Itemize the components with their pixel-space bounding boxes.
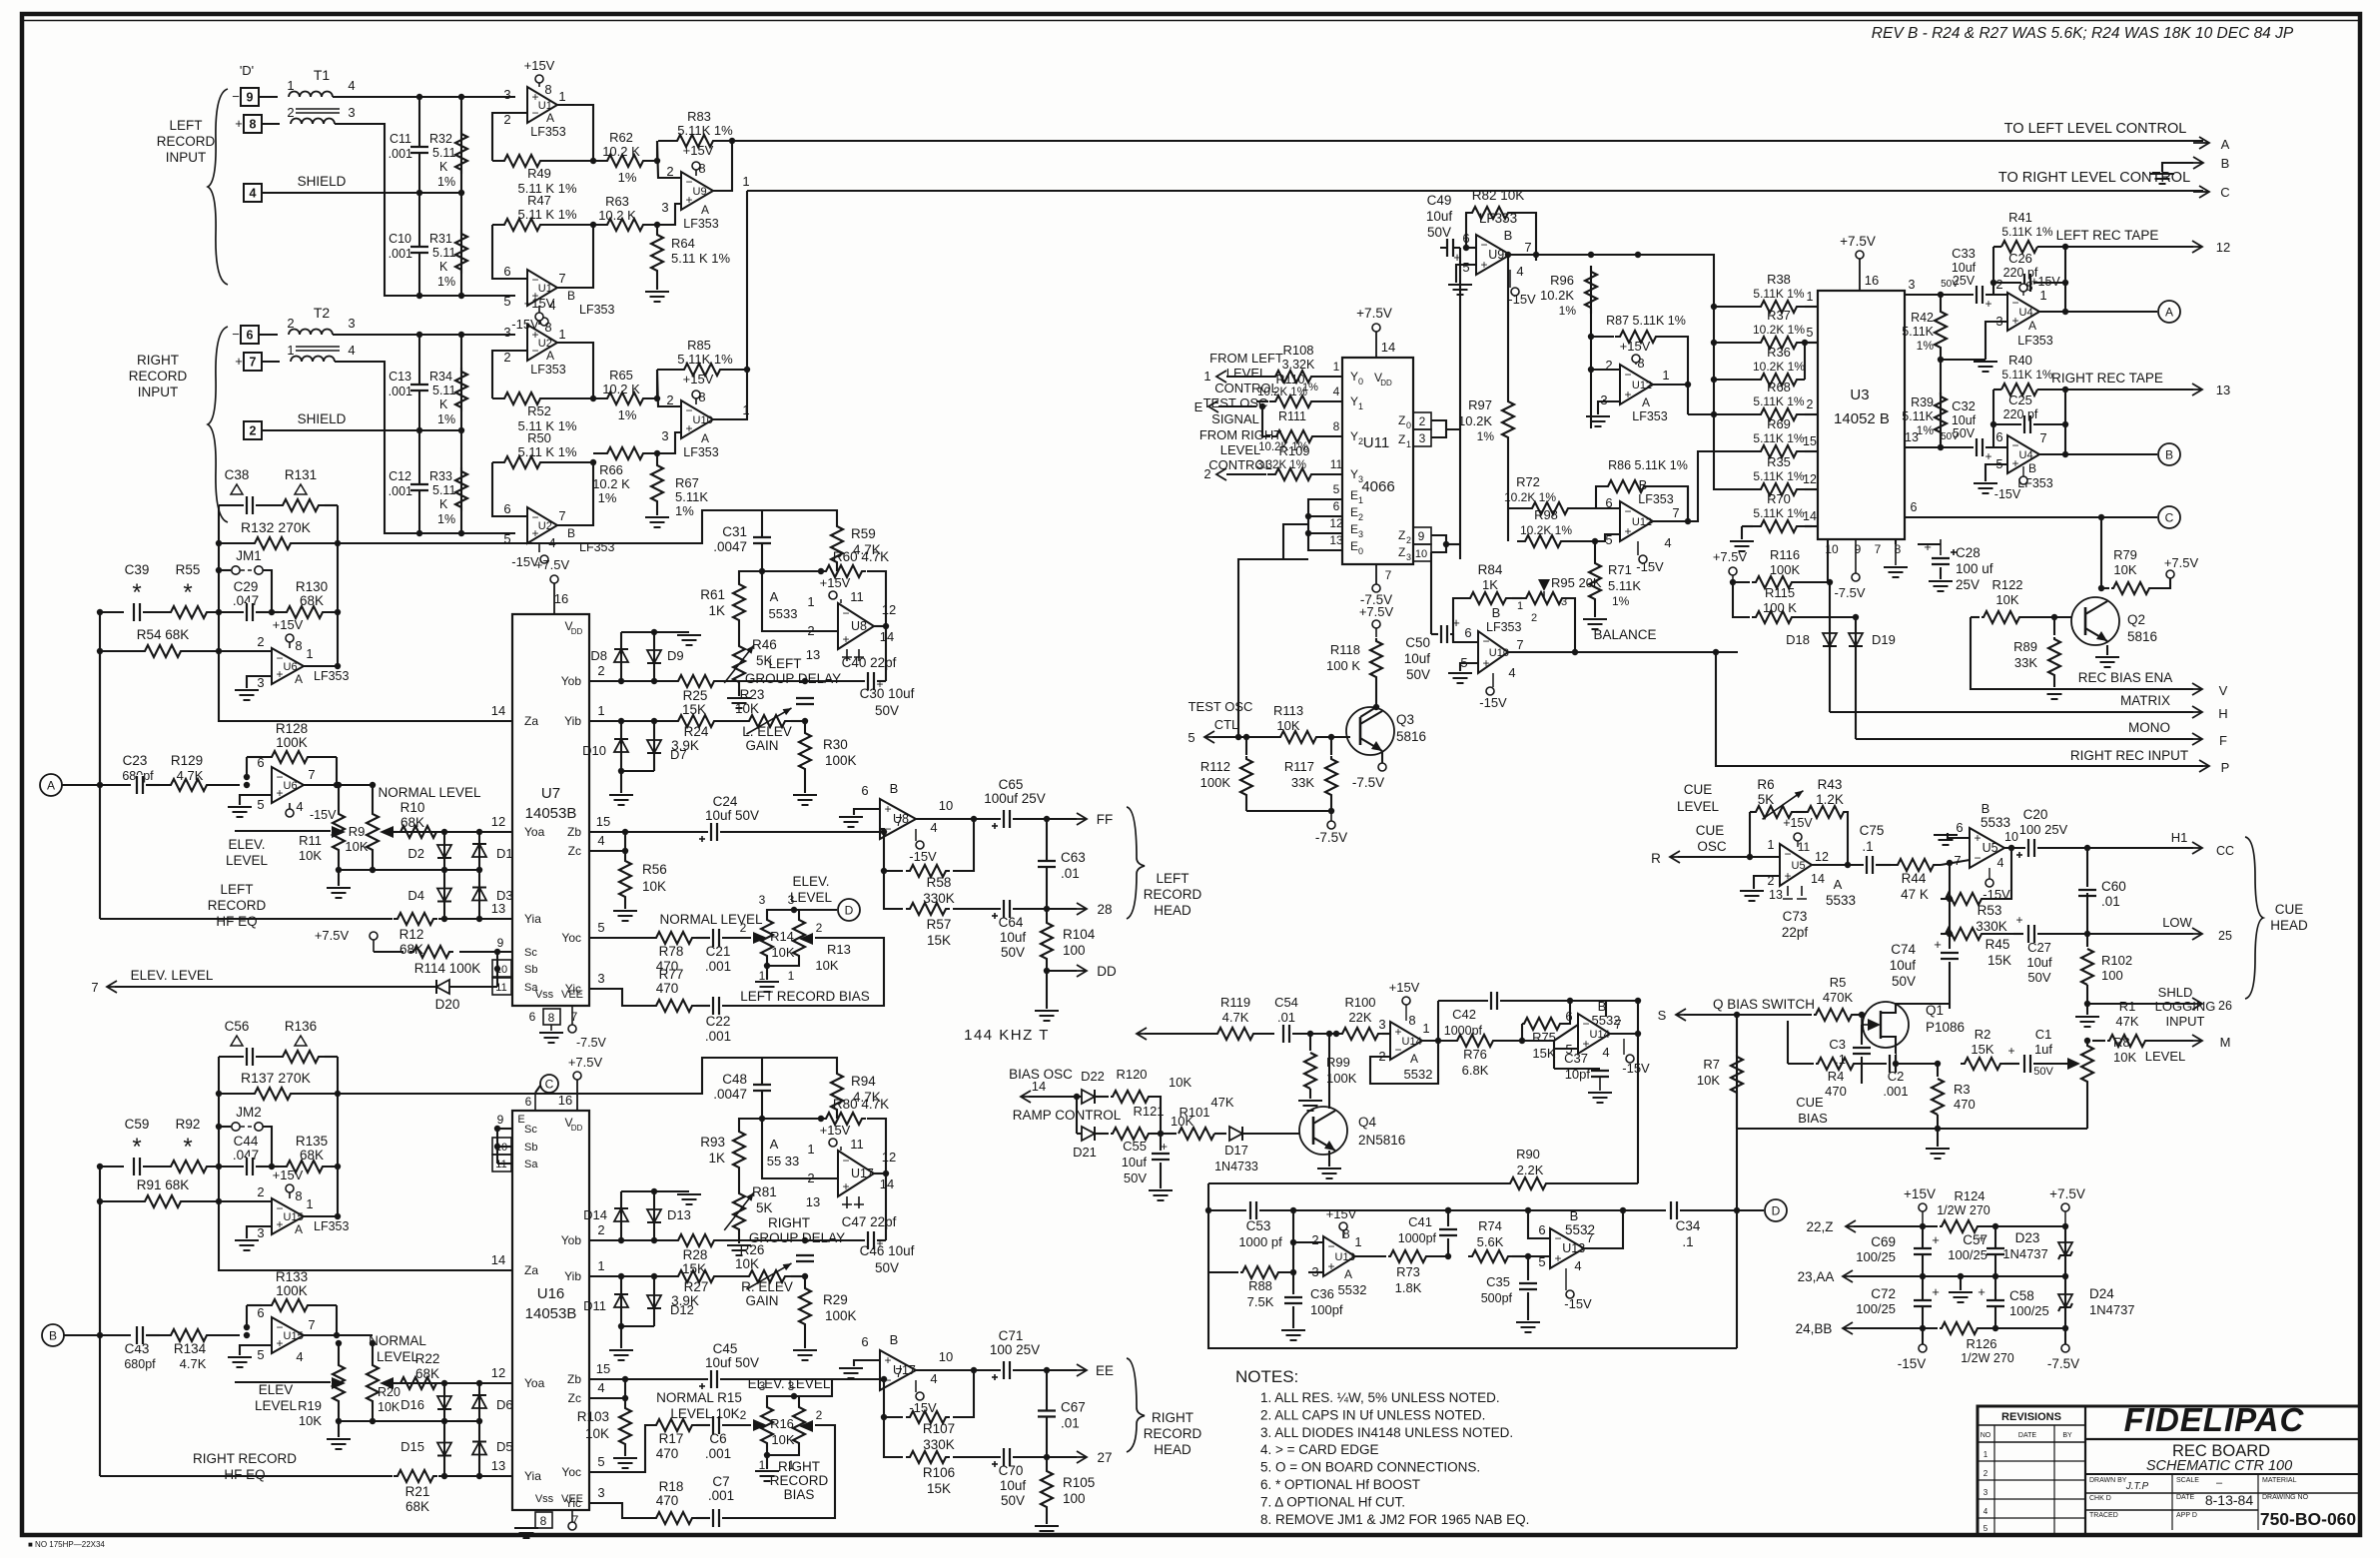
svg-text:+7.5V: +7.5V [535, 557, 570, 572]
card edge arrow B with ground [2162, 163, 2193, 172]
trimmer R95 20K [1512, 597, 1522, 599]
record head brace [1127, 807, 1145, 919]
wire Za pin 14 [219, 651, 512, 721]
svg-text:DD: DD [571, 1124, 583, 1133]
svg-text:Yia: Yia [524, 1469, 541, 1483]
svg-text:U4: U4 [2019, 307, 2033, 319]
svg-text:LEVEL: LEVEL [377, 1349, 419, 1364]
wire [418, 335, 420, 533]
svg-text:C39: C39 [125, 562, 150, 577]
svg-text:5.11K 1%: 5.11K 1% [677, 123, 733, 138]
svg-text:INPUT: INPUT [166, 150, 207, 165]
svg-text:+: + [1924, 539, 1932, 554]
svg-text:9: 9 [497, 936, 504, 950]
svg-text:7: 7 [558, 508, 565, 523]
wire [1238, 559, 1308, 737]
svg-text:10uf: 10uf [1000, 930, 1027, 945]
wire U10 output [713, 191, 747, 419]
svg-text:1: 1 [1807, 290, 1814, 304]
svg-text:5: 5 [1807, 326, 1814, 340]
svg-text:Za: Za [524, 714, 538, 728]
svg-text:U3: U3 [1850, 387, 1869, 403]
svg-text:D16: D16 [400, 1397, 424, 1412]
ground [240, 795, 272, 805]
svg-text:R4: R4 [1828, 1069, 1845, 1084]
svg-text:10: 10 [939, 798, 953, 813]
svg-text:1: 1 [1358, 495, 1363, 505]
svg-text:7: 7 [1875, 542, 1882, 556]
trimmer R19 10K [333, 1357, 345, 1409]
svg-text:14: 14 [1032, 1079, 1046, 1094]
svg-text:10uf: 10uf [2026, 955, 2052, 970]
svg-text:+: + [276, 667, 283, 681]
wire R132 row to C31 node [338, 510, 762, 543]
IC U16 14053B [512, 1111, 589, 1510]
svg-text:C64: C64 [999, 915, 1024, 930]
svg-text:50V: 50V [2033, 1066, 2053, 1078]
svg-text:100K: 100K [1770, 562, 1801, 577]
svg-text:33K: 33K [2014, 655, 2037, 670]
svg-text:5: 5 [1605, 532, 1612, 547]
svg-text:R11: R11 [299, 833, 322, 848]
svg-text:K: K [439, 260, 448, 274]
svg-text:LF353: LF353 [314, 669, 349, 683]
svg-text:2: 2 [1419, 414, 1426, 428]
wire U8 output [874, 625, 886, 627]
svg-text:1: 1 [1354, 1234, 1361, 1249]
wire U4 A output [2039, 311, 2157, 313]
svg-text:330K: 330K [1976, 919, 2007, 934]
svg-text:Vss: Vss [535, 1493, 554, 1505]
svg-text:R46: R46 [752, 637, 777, 652]
capacitor C37 10pf [1553, 1049, 1555, 1069]
svg-text:R78: R78 [659, 944, 684, 959]
wire [621, 631, 689, 633]
svg-text:3: 3 [348, 316, 355, 331]
IC U7 14053B [512, 614, 589, 1006]
svg-text:8: 8 [295, 638, 302, 653]
svg-text:A: A [546, 111, 554, 125]
wire [1678, 856, 1780, 858]
svg-text:C45: C45 [713, 1341, 738, 1356]
connector pin 8 [244, 115, 262, 133]
svg-text:C44: C44 [234, 1134, 259, 1149]
svg-text:R47: R47 [527, 193, 551, 208]
trimmer R15 10K [799, 1420, 813, 1432]
svg-text:3: 3 [1378, 1017, 1385, 1032]
svg-text:3: 3 [597, 971, 604, 986]
svg-text:.001: .001 [389, 484, 412, 498]
ground Q2 emitter [2106, 645, 2108, 655]
svg-text:12: 12 [882, 602, 896, 617]
svg-text:C54: C54 [1274, 995, 1298, 1010]
svg-text:8: 8 [544, 320, 551, 335]
svg-text:Zc: Zc [568, 1391, 581, 1405]
svg-text:C55: C55 [1123, 1139, 1147, 1154]
U11 enable wires [1308, 499, 1342, 550]
svg-text:−: − [276, 1320, 283, 1334]
wire vertical bus [1736, 1015, 1738, 1348]
svg-text:RIGHT REC TAPE: RIGHT REC TAPE [2051, 371, 2163, 386]
svg-text:5. O = ON BOARD CONNECTIONS.: 5. O = ON BOARD CONNECTIONS. [1260, 1460, 1480, 1475]
ground [677, 634, 701, 636]
svg-text:2: 2 [816, 1408, 823, 1422]
svg-text:LEVEL: LEVEL [255, 1398, 298, 1413]
svg-text:-15V: -15V [1479, 695, 1507, 710]
op-amp U5 A 5533 [1780, 844, 1812, 886]
wire loop [1208, 1183, 1737, 1348]
svg-text:26: 26 [2218, 999, 2232, 1013]
svg-text:R5: R5 [1830, 975, 1847, 990]
wire [418, 97, 420, 296]
svg-text:100/25: 100/25 [2009, 1303, 2049, 1318]
svg-text:50V: 50V [1001, 1493, 1025, 1508]
svg-text:−: − [276, 651, 283, 665]
svg-text:1: 1 [759, 969, 766, 983]
svg-text:*: * [183, 1134, 192, 1161]
svg-text:10: 10 [1415, 548, 1427, 560]
svg-text:100uf 25V: 100uf 25V [984, 791, 1046, 806]
svg-text:1: 1 [306, 1196, 313, 1211]
svg-text:6: 6 [1995, 429, 2002, 444]
svg-text:REVISIONS: REVISIONS [2001, 1411, 2061, 1423]
svg-text:16: 16 [1865, 273, 1879, 288]
wire Zc join [589, 850, 625, 852]
svg-text:100 25V: 100 25V [2019, 822, 2068, 837]
svg-text:C36: C36 [1310, 1286, 1334, 1301]
connector C circle to U16 E pin [540, 1075, 558, 1093]
svg-text:4: 4 [1602, 1045, 1609, 1060]
svg-text:D10: D10 [582, 743, 606, 758]
svg-text:100: 100 [1063, 1491, 1086, 1506]
wire [621, 1325, 654, 1327]
diode D9 [653, 632, 655, 681]
svg-text:100/25: 100/25 [1948, 1247, 1987, 1262]
capacitor C63 .01 [1046, 819, 1048, 909]
svg-text:10uf: 10uf [1952, 413, 1977, 427]
resistor R3 470 [1937, 1064, 1939, 1077]
svg-text:2: 2 [503, 112, 510, 127]
diode D14 [620, 1191, 622, 1240]
svg-text:+: + [1624, 388, 1631, 401]
svg-text:DD: DD [1097, 964, 1117, 979]
svg-text:4: 4 [250, 187, 257, 201]
svg-text:RECORD: RECORD [208, 898, 267, 913]
svg-text:7: 7 [1516, 637, 1523, 652]
wire R35 row [1713, 488, 1715, 490]
svg-text:Z: Z [1398, 432, 1405, 446]
op-amp U1 B [527, 270, 557, 306]
IC U3 14052B [1818, 291, 1905, 539]
svg-text:3: 3 [1983, 1488, 1988, 1497]
svg-text:12: 12 [491, 814, 505, 829]
ground [1149, 1189, 1173, 1191]
svg-text:B: B [2165, 448, 2173, 462]
svg-text:Sc: Sc [524, 947, 537, 959]
svg-text:T2: T2 [314, 305, 331, 321]
resistor R39 5.11K 1% [1940, 392, 1942, 447]
svg-text:D: D [845, 904, 854, 918]
resistor R59 4.7K [762, 510, 837, 524]
svg-text:+: + [1932, 1284, 1940, 1299]
svg-text:1K: 1K [708, 1151, 725, 1166]
svg-text:10K: 10K [815, 958, 838, 973]
svg-text:6. * OPTIONAL Hf BOOST: 6. * OPTIONAL Hf BOOST [1260, 1477, 1420, 1492]
svg-text:1%: 1% [1612, 594, 1630, 608]
wire [247, 676, 272, 688]
resistor R50 feedback [492, 462, 527, 516]
svg-text:+: + [1453, 250, 1461, 265]
resistor R86 5.11K [1596, 486, 1620, 508]
wire LOW [2086, 893, 2088, 934]
svg-text:100K: 100K [825, 753, 857, 768]
svg-text:DD: DD [1380, 379, 1392, 388]
svg-text:1: 1 [558, 327, 565, 342]
svg-text:13: 13 [491, 901, 505, 916]
svg-text:5K: 5K [1758, 792, 1775, 807]
svg-text:SIGNAL: SIGNAL [1211, 411, 1259, 426]
svg-text:R53: R53 [1978, 903, 2002, 918]
ground [1985, 322, 2007, 360]
resistor R28 15K [589, 1239, 674, 1241]
resistor R122 10K [1971, 616, 1980, 618]
svg-text:C71: C71 [999, 1328, 1024, 1343]
-15V supply U12B [1639, 555, 1647, 563]
svg-text:470: 470 [656, 1493, 679, 1508]
svg-text:A: A [2165, 306, 2173, 320]
resistor R70 5.11K 1% [1753, 520, 1805, 532]
svg-text:25V: 25V [1956, 577, 1980, 592]
svg-text:7: 7 [2039, 430, 2046, 445]
connector pin 7 [244, 353, 262, 371]
svg-text:10K: 10K [771, 945, 794, 960]
svg-text:13: 13 [806, 1194, 820, 1209]
svg-text:6: 6 [1538, 1222, 1545, 1237]
resistor R75 15K [1522, 1018, 1562, 1030]
svg-text:LOGGING: LOGGING [2155, 999, 2216, 1014]
svg-text:10K: 10K [1169, 1075, 1191, 1090]
svg-text:R77: R77 [659, 967, 684, 982]
card edge 22,Z [1846, 1225, 1862, 1227]
svg-text:LF353: LF353 [1479, 211, 1517, 226]
svg-text:BY: BY [2062, 1432, 2072, 1439]
resistor R119 4.7K [1213, 1028, 1257, 1040]
svg-text:470: 470 [1825, 1084, 1847, 1099]
svg-text:10uf 50V: 10uf 50V [705, 808, 759, 823]
svg-text:2: 2 [287, 316, 294, 331]
svg-text:13: 13 [1769, 888, 1783, 902]
svg-text:5: 5 [1188, 730, 1194, 745]
svg-text:RIGHT RECORD: RIGHT RECORD [193, 1451, 297, 1466]
resistor R38 5.11K 1% [1753, 301, 1805, 313]
diode D19 [1855, 617, 1857, 739]
svg-text:100K: 100K [825, 1308, 857, 1323]
card edge 24,BB [1843, 1327, 1859, 1329]
svg-text:12: 12 [1815, 850, 1829, 864]
resistor R29 100K [804, 1276, 806, 1286]
cue head brace [2245, 837, 2263, 999]
svg-text:1: 1 [1333, 360, 1340, 374]
resistor R89 33K [2053, 617, 2055, 635]
svg-text:U12: U12 [1632, 516, 1652, 528]
svg-text:100/25: 100/25 [1856, 1301, 1896, 1316]
ground [645, 516, 669, 518]
svg-text:330K: 330K [923, 1437, 955, 1452]
connector pin 2 [244, 421, 262, 439]
svg-text:10K: 10K [1995, 592, 2018, 607]
svg-text:13: 13 [1329, 533, 1343, 547]
svg-text:6: 6 [1565, 1009, 1572, 1024]
svg-text:6: 6 [257, 1305, 264, 1320]
capacitor C47 22pf [885, 1173, 887, 1240]
svg-text:4: 4 [1997, 856, 2004, 870]
capacitor C13 [409, 385, 429, 390]
wire U15 B output [304, 1334, 373, 1336]
op-amp U10 A [681, 400, 713, 438]
resistor R72 10.2K [1508, 507, 1526, 509]
svg-text:14053B: 14053B [525, 805, 577, 822]
trimmer R20 10K [367, 1357, 379, 1409]
wire bus from U9B output [1638, 255, 1753, 489]
svg-text:5533: 5533 [769, 606, 798, 621]
connector A circle [40, 774, 62, 796]
svg-text:FIDELIPAC: FIDELIPAC [2124, 1401, 2305, 1438]
svg-text:R12: R12 [399, 927, 424, 942]
diode D22 [1077, 1096, 1082, 1098]
svg-text:5.11 K 1%: 5.11 K 1% [671, 251, 730, 266]
diode D7 [653, 721, 655, 771]
svg-text:-7.5V: -7.5V [576, 1036, 607, 1050]
svg-text:BIAS: BIAS [784, 1487, 815, 1502]
svg-text:R43: R43 [1818, 777, 1843, 792]
svg-text:4: 4 [348, 78, 355, 93]
svg-text:Q4: Q4 [1358, 1115, 1377, 1130]
svg-text:1%: 1% [437, 175, 455, 189]
resistor R47 feedback [492, 225, 527, 279]
resistor R110 10.2K [1256, 400, 1268, 402]
svg-text:LEFT REC TAPE: LEFT REC TAPE [2056, 228, 2159, 243]
-15V supply [1626, 1055, 1634, 1063]
svg-text:C42: C42 [1452, 1007, 1476, 1022]
ground [235, 689, 259, 691]
svg-text:1: 1 [1406, 439, 1411, 449]
svg-text:R52: R52 [527, 403, 551, 418]
svg-text:C50: C50 [1405, 635, 1430, 650]
svg-text:R57: R57 [927, 917, 952, 932]
svg-text:-15V: -15V [1508, 292, 1536, 307]
svg-text:SHLD: SHLD [2158, 985, 2193, 1000]
svg-text:R44: R44 [1902, 871, 1927, 886]
svg-text:R: R [1651, 851, 1661, 866]
wire [259, 334, 278, 336]
svg-text:R75: R75 [1532, 1030, 1556, 1045]
svg-text:5.11 K 1%: 5.11 K 1% [517, 207, 576, 222]
svg-text:24,BB: 24,BB [1796, 1321, 1833, 1336]
svg-text:10K: 10K [345, 839, 368, 854]
svg-text:R96: R96 [1550, 273, 1574, 288]
svg-text:C27: C27 [2027, 940, 2051, 955]
svg-text:10K: 10K [299, 848, 322, 863]
wire cue bias rail [1737, 1128, 2087, 1130]
svg-text:1: 1 [1517, 600, 1523, 612]
svg-text:1N4737: 1N4737 [2002, 1246, 2048, 1261]
svg-text:1: 1 [287, 343, 294, 358]
svg-text:50V: 50V [875, 1260, 899, 1275]
resistor R40 5.11K 1% [1993, 389, 2001, 390]
wire Zc join [589, 1397, 625, 1399]
svg-text:R3: R3 [1954, 1082, 1971, 1097]
svg-text:JM2: JM2 [236, 1105, 262, 1120]
svg-text:C25: C25 [2008, 392, 2032, 407]
capacitor C65 [974, 818, 1001, 820]
svg-text:Yob: Yob [561, 1233, 582, 1247]
svg-text:5.11K: 5.11K [675, 489, 708, 504]
svg-text:U10: U10 [1489, 647, 1509, 659]
svg-text:V: V [2219, 683, 2228, 698]
connector B circle [42, 1324, 64, 1346]
capacitor C74 10uf 50V [1949, 934, 1951, 949]
svg-text:+7.5V: +7.5V [315, 928, 350, 943]
svg-text:5.11K 1%: 5.11K 1% [1753, 469, 1804, 483]
svg-text:2: 2 [250, 424, 257, 438]
-7.5V supply Q3 emitter [1381, 751, 1383, 763]
svg-text:-15V: -15V [310, 808, 337, 822]
svg-text:D18: D18 [1786, 632, 1810, 647]
resistor R100 22K [1338, 1028, 1382, 1040]
svg-text:13: 13 [491, 1458, 505, 1473]
svg-text:4: 4 [597, 833, 604, 848]
svg-text:APP D: APP D [2176, 1512, 2197, 1519]
svg-text:16: 16 [558, 1093, 572, 1108]
wire [880, 1379, 884, 1380]
resistor R35 5.11K 1% [1753, 483, 1805, 495]
svg-text:1: 1 [759, 1458, 766, 1472]
wire [246, 757, 248, 777]
svg-text:C31: C31 [722, 524, 747, 539]
svg-text:R110: R110 [1276, 373, 1305, 387]
svg-text:A: A [770, 589, 779, 604]
svg-text:3: 3 [759, 893, 766, 907]
svg-text:R69: R69 [1767, 416, 1791, 431]
svg-text:8: 8 [1408, 1013, 1415, 1028]
wire U4 B output [2039, 453, 2157, 455]
svg-text:1%: 1% [1917, 423, 1935, 437]
wire U12A output [1653, 384, 1688, 386]
svg-text:R6: R6 [1757, 777, 1774, 792]
svg-text:6: 6 [1333, 499, 1340, 513]
pin 13 caps [842, 1196, 864, 1208]
-15V supply [1511, 288, 1519, 296]
svg-text:OSC: OSC [1697, 839, 1727, 854]
svg-text:D11: D11 [583, 1298, 606, 1313]
svg-text:Q BIAS SWITCH: Q BIAS SWITCH [1713, 997, 1815, 1012]
svg-text:7: 7 [1614, 1017, 1621, 1032]
svg-text:-15V: -15V [909, 849, 937, 864]
svg-text:K: K [439, 397, 448, 411]
svg-text:8: 8 [548, 1011, 555, 1025]
svg-text:TO LEFT LEVEL CONTROL: TO LEFT LEVEL CONTROL [2004, 121, 2187, 137]
svg-text:10.2K 1%: 10.2K 1% [1520, 523, 1572, 537]
svg-text:10K: 10K [585, 1426, 609, 1441]
svg-text:5: 5 [503, 294, 510, 309]
connector circle B [2158, 443, 2180, 465]
svg-text:12: 12 [1329, 516, 1343, 530]
svg-text:LF353: LF353 [1632, 409, 1667, 423]
resistor R106 [884, 1417, 903, 1457]
diode D6 [478, 1383, 480, 1421]
trimmer R46 5K [738, 622, 740, 644]
capacitor C32 10uf [1905, 446, 1941, 448]
